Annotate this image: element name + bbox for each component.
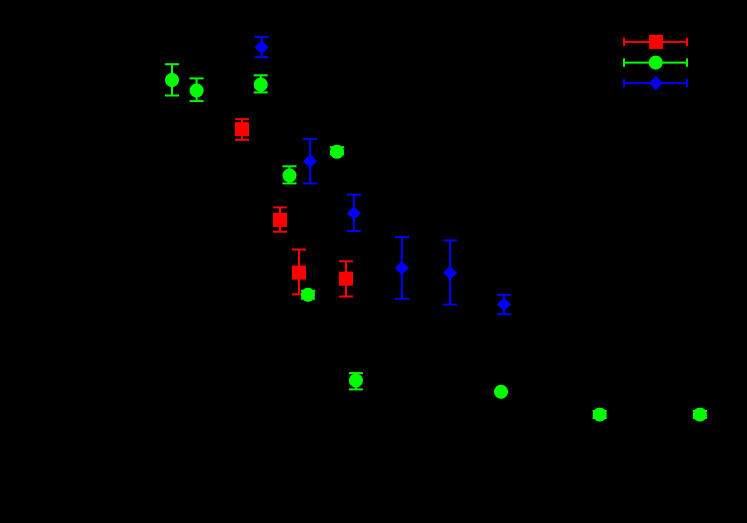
point G8 <box>494 385 508 399</box>
error bar point G1 <box>165 64 179 95</box>
error bar point G5 <box>283 166 297 183</box>
error bar point G2 <box>190 78 204 101</box>
legend entry green <box>624 58 687 66</box>
error bar point D4 <box>395 237 409 299</box>
error bar point D1 <box>255 37 269 57</box>
error bar point G4 <box>330 147 344 154</box>
legend entry red <box>624 38 687 46</box>
error bar point R2 <box>273 207 287 231</box>
error bar point R1 <box>235 119 249 140</box>
error bar point G9 <box>593 411 607 418</box>
legend entry blue <box>624 79 687 87</box>
error bar point D3 <box>347 195 361 231</box>
error bar point R3 <box>292 250 306 295</box>
error bar point G6 <box>301 291 315 299</box>
error bar point R4 <box>339 261 353 296</box>
error bar point G3 <box>254 75 268 92</box>
error bar point D5 <box>443 240 457 304</box>
error bar point D2 <box>303 139 317 183</box>
error bar point G7 <box>349 373 363 389</box>
error bar point G10 <box>693 411 707 418</box>
error bar point D6 <box>497 295 511 314</box>
